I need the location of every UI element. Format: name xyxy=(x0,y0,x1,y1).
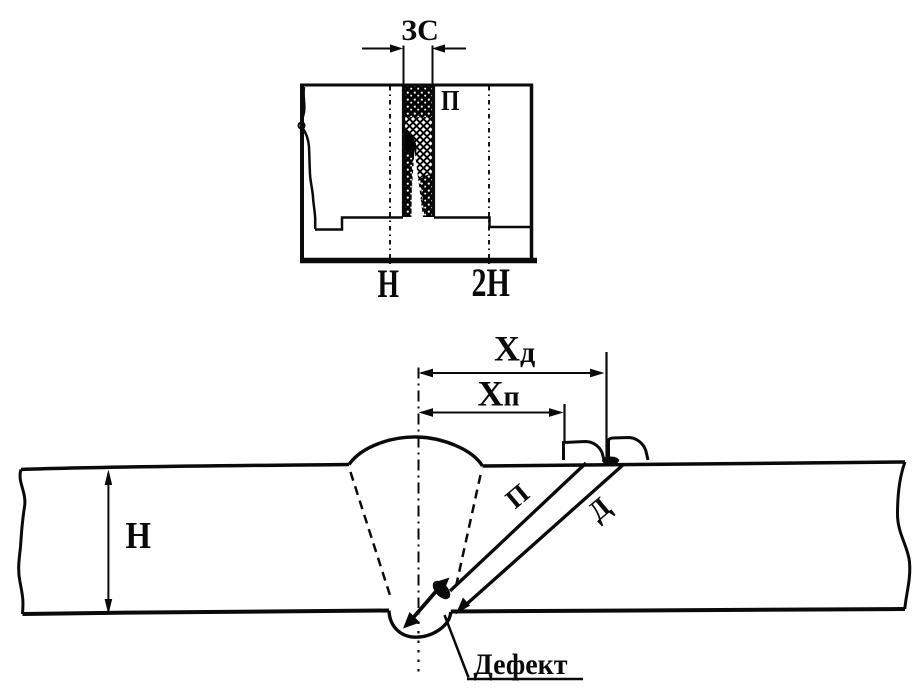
svg-text:П: П xyxy=(441,86,460,117)
svg-text:Хп: Хп xyxy=(478,374,520,414)
svg-text:2Н: 2Н xyxy=(472,260,511,305)
svg-text:Н: Н xyxy=(378,261,400,306)
svg-text:П: П xyxy=(500,478,535,514)
svg-text:Хд: Хд xyxy=(494,329,535,370)
svg-text:Дефект: Дефект xyxy=(474,648,568,681)
svg-text:Н: Н xyxy=(126,515,152,557)
svg-text:ЗС: ЗС xyxy=(401,14,439,47)
